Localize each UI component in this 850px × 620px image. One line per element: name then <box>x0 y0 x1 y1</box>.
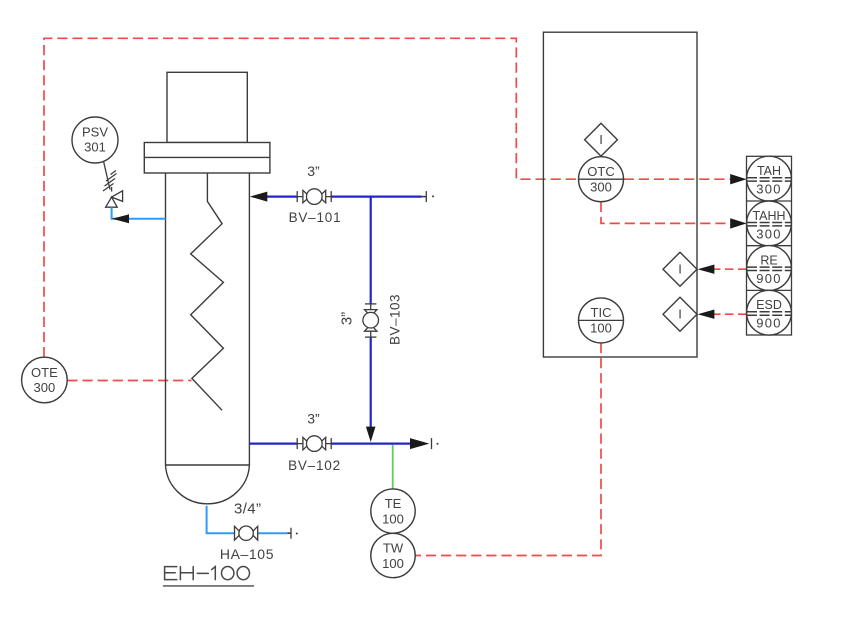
label 3" (BV-103, rotated) <box>339 312 356 325</box>
svg-text:3”: 3” <box>307 411 320 427</box>
svg-text:OTC: OTC <box>587 164 614 179</box>
label 3" (BV-102) <box>307 411 320 427</box>
line end tick + dot (outlet) <box>432 438 439 449</box>
svg-text:100: 100 <box>590 321 612 336</box>
equipment tag EH-100 (thin CAD-style strokes) <box>164 567 254 586</box>
alarm bubble ESD 900 <box>747 290 792 335</box>
label 3/4" <box>234 501 261 518</box>
valve BV-101 (ball valve) <box>297 189 331 205</box>
svg-text:OTE: OTE <box>31 365 58 380</box>
label 3" (BV-101) <box>307 163 320 179</box>
instrument bubble OTC 300 <box>579 157 624 202</box>
arrowhead into diamond I (RE) <box>698 265 715 274</box>
wire: cyan PSV outlet to vessel <box>112 207 166 219</box>
arrowhead into TAHH <box>730 218 746 228</box>
label BV-101 <box>289 210 342 225</box>
wire: red dashed signal OTE up/over to OTC <box>44 38 578 357</box>
svg-text:900: 900 <box>756 271 782 286</box>
instrument bubble TE 100 <box>371 489 415 533</box>
svg-text:BV–102: BV–102 <box>288 458 341 473</box>
svg-text:I: I <box>678 262 682 277</box>
svg-text:PSV: PSV <box>82 125 108 140</box>
interlock diamond I (RE) <box>663 252 697 286</box>
svg-text:100: 100 <box>382 511 404 526</box>
control panel rectangle <box>543 32 697 357</box>
label HA-105 <box>220 546 274 562</box>
valve HA-105 (ball valve) <box>235 526 258 540</box>
valve BV-103 (ball valve, vertical) <box>363 304 379 337</box>
wire: blue outlet line through BV-102 <box>249 443 411 445</box>
arrowhead on PSV line pointing left <box>112 214 129 223</box>
svg-text:3”: 3” <box>307 163 320 179</box>
wire: red dashed OTC down/over to TAHH <box>601 202 731 224</box>
svg-text:ESD: ESD <box>756 298 782 312</box>
interlock diamond I (ESD) <box>663 297 697 331</box>
vessel EH-100 flange <box>144 143 270 174</box>
svg-text:HA–105: HA–105 <box>220 546 274 562</box>
svg-text:900: 900 <box>756 316 782 331</box>
arrowhead down into outlet line <box>366 427 376 442</box>
svg-text:301: 301 <box>84 140 106 155</box>
wire: red dashed RE to diamond <box>714 268 747 270</box>
svg-text:300: 300 <box>34 380 56 395</box>
line end tick + dot (drain) <box>291 528 298 539</box>
PSV spring symbol <box>103 171 117 192</box>
instrument bubble OTE 300 <box>22 357 68 403</box>
valve BV-102 (ball valve) <box>297 436 331 452</box>
svg-text:3”: 3” <box>339 312 356 325</box>
arrowhead into diamond I (ESD) <box>698 310 715 319</box>
wire: cyan drain line through HA-105 <box>207 506 291 533</box>
vessel EH-100 shell <box>166 173 250 504</box>
alarm bubble TAH 300 <box>747 156 792 201</box>
svg-text:RE: RE <box>760 253 777 267</box>
interlock diamond I (above OTC) <box>585 123 618 156</box>
instrument bubble TIC 100 <box>579 298 624 343</box>
arrowhead into vessel (inlet) <box>250 192 267 202</box>
svg-text:3/4”: 3/4” <box>234 501 261 518</box>
instrument bubble PSV 301 <box>72 117 118 163</box>
alarm column box <box>747 156 792 335</box>
svg-text:BV–103: BV–103 <box>388 294 403 345</box>
relief valve PSV body (angle valve) <box>106 187 123 207</box>
arrowhead into TAH <box>730 174 746 184</box>
svg-text:300: 300 <box>756 226 782 241</box>
svg-text:TAH: TAH <box>757 164 781 178</box>
svg-text:TE: TE <box>385 496 402 511</box>
wire: red dashed OTE to heating coil <box>67 380 191 382</box>
instrument bubble TW 100 <box>371 533 415 577</box>
wire: red dashed OTC to TAH <box>624 178 731 180</box>
wire: blue branch down through BV-103 <box>370 197 372 428</box>
svg-text:TAHH: TAHH <box>752 209 785 223</box>
wire: red dashed TIC down/over to TW <box>416 343 602 556</box>
wire: green line to TE <box>392 445 394 489</box>
svg-text:I: I <box>678 307 682 322</box>
heating coil zigzag <box>191 173 224 410</box>
vessel EH-100 top nozzle cap <box>167 72 247 142</box>
svg-text:300: 300 <box>756 182 782 197</box>
label BV-102 <box>288 458 341 473</box>
svg-text:I: I <box>599 132 603 147</box>
svg-text:TW: TW <box>383 540 404 555</box>
label BV-103 (rotated) <box>388 294 403 345</box>
svg-text:TIC: TIC <box>591 305 612 320</box>
line end tick + dot (inlet) <box>426 191 434 202</box>
svg-text:BV–101: BV–101 <box>289 210 342 225</box>
alarm bubble RE 900 <box>747 246 792 291</box>
svg-text:300: 300 <box>590 179 612 194</box>
alarm bubble TAHH 300 <box>747 201 792 246</box>
PSV leader line <box>104 162 110 190</box>
wire: blue inlet line through BV-101 <box>260 196 426 198</box>
arrowhead outlet pointing right <box>410 438 429 449</box>
wire: red dashed ESD to diamond <box>714 313 747 315</box>
svg-text:100: 100 <box>382 556 404 571</box>
